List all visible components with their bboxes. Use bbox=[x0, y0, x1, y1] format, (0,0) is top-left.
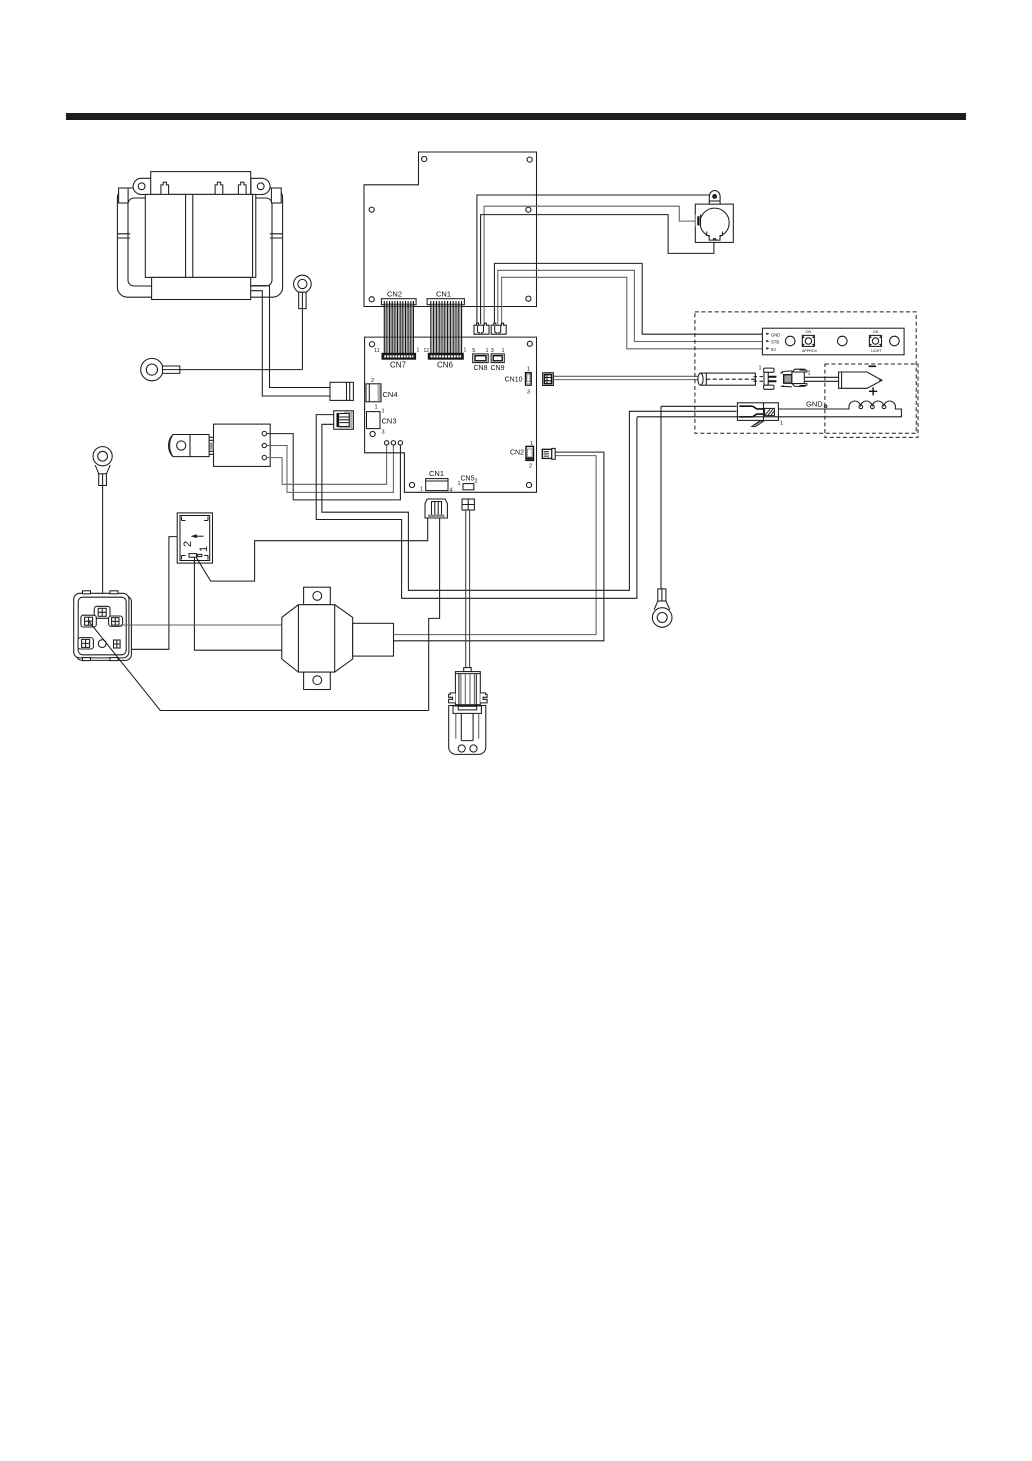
wire relay pin2 left-down bbox=[131, 537, 177, 650]
wire connector B to igniter bbox=[804, 377, 838, 381]
wire solenoid T1 to pad3 bbox=[267, 434, 401, 500]
svg-text:ON: ON bbox=[806, 330, 812, 334]
svg-text:CN4: CN4 bbox=[383, 390, 398, 399]
transformer mounting ear left bbox=[133, 178, 152, 194]
block terminal mid-left bbox=[81, 615, 96, 627]
thermostat relay RL1 bbox=[177, 513, 212, 563]
ribbon CN2-CN7 wires bbox=[386, 303, 413, 354]
plug P-CN2 bbox=[542, 448, 555, 459]
svg-text:2: 2 bbox=[529, 464, 532, 470]
panel wire GND bbox=[494, 263, 762, 334]
wire CT right to CN2 plug (top) bbox=[394, 456, 597, 635]
wire RT2 to RT1 bbox=[180, 369, 303, 371]
plug P-CN9 bbox=[491, 323, 506, 334]
mating connector B bbox=[780, 369, 807, 387]
svg-text:ON: ON bbox=[873, 330, 879, 334]
wire solenoid T3 to pad1 bbox=[267, 445, 387, 484]
transformer right arm break bbox=[270, 234, 283, 238]
connector CN4 bbox=[366, 384, 381, 402]
svg-text:CN8: CN8 bbox=[473, 365, 487, 372]
svg-text:1: 1 bbox=[485, 348, 488, 354]
panel LED 1 bbox=[785, 336, 795, 346]
svg-text:2: 2 bbox=[475, 479, 478, 485]
svg-text:5: 5 bbox=[472, 348, 475, 354]
panel button 2 bbox=[869, 330, 882, 353]
ring terminal RT1 (below transformer) bbox=[294, 275, 312, 308]
plug P-CN5 bbox=[462, 499, 474, 510]
wire block mid-right to CT bbox=[120, 624, 282, 626]
connector CN1 (board) bbox=[426, 479, 448, 491]
svg-text:1: 1 bbox=[417, 348, 420, 354]
svg-text:CN10: CN10 bbox=[505, 377, 523, 384]
plug P-CN4 bbox=[330, 382, 353, 400]
transformer core bbox=[145, 194, 256, 277]
panel wire 5V bbox=[502, 277, 763, 349]
wire RT1 down bbox=[301, 309, 303, 370]
panel wire STB bbox=[498, 270, 763, 341]
svg-text:1: 1 bbox=[198, 546, 210, 552]
ring terminal RT4 bbox=[652, 406, 672, 627]
pad C bbox=[398, 441, 402, 445]
lower PCB hole TL bbox=[369, 342, 374, 347]
wire relay pin1 to plug P-CN1 bbox=[196, 518, 427, 581]
ribbon CN1 bar bbox=[427, 299, 464, 305]
wire transformer to CN4 plug (upper) bbox=[251, 286, 330, 388]
upper PCB hole MR bbox=[526, 207, 531, 212]
pad B bbox=[391, 441, 395, 445]
transformer left arm break bbox=[117, 234, 130, 238]
svg-text:LIGHT: LIGHT bbox=[871, 349, 882, 353]
long wire W-C P-CN3 to coil loop bbox=[316, 415, 637, 599]
plug P-CN3 bbox=[334, 411, 354, 430]
transformer terminal tab 1 bbox=[161, 182, 169, 194]
lower PCB outline bbox=[365, 337, 537, 492]
block terminal bottom-right bbox=[114, 640, 121, 648]
connector CN3 bbox=[367, 412, 381, 429]
svg-text:CN6: CN6 bbox=[437, 361, 454, 370]
top rule bbox=[66, 113, 966, 120]
svg-text:CN1: CN1 bbox=[436, 290, 451, 299]
block terminal bottom-left bbox=[78, 638, 93, 649]
ribbon CN1-CN6 wires bbox=[432, 303, 460, 354]
ring terminal RT2 (left, horizontal) bbox=[141, 358, 180, 380]
svg-text:4: 4 bbox=[450, 488, 453, 494]
svg-text:2: 2 bbox=[371, 378, 374, 384]
wire CT right to CN2 plug (bottom) bbox=[394, 452, 604, 641]
block terminal mid-right bbox=[109, 616, 123, 626]
transformer inner frame bbox=[128, 198, 272, 286]
motor wire M1 bbox=[477, 195, 710, 324]
wire block diagonal to P-CN1 center bbox=[89, 622, 429, 711]
probe terminal connector A bbox=[764, 368, 777, 389]
wire P-CN10 to probe (pair) bbox=[553, 376, 698, 379]
svg-text:2: 2 bbox=[182, 541, 194, 547]
svg-text:5V: 5V bbox=[771, 347, 776, 352]
wire GND connector to RT4 bbox=[661, 405, 737, 407]
svg-text:11: 11 bbox=[374, 348, 379, 354]
upper PCB hole BR bbox=[526, 296, 531, 301]
transformer bottom plate bbox=[152, 277, 251, 299]
CT bottom tab bbox=[304, 672, 331, 689]
pad A bbox=[384, 441, 388, 445]
svg-text:1: 1 bbox=[382, 409, 385, 415]
svg-text:STB: STB bbox=[771, 340, 779, 345]
connector CN7 bar bbox=[382, 353, 416, 359]
upper PCB outline bbox=[364, 152, 537, 307]
ribbon CN2 bar bbox=[381, 299, 416, 305]
svg-text:1: 1 bbox=[808, 371, 811, 377]
connector CN8 bbox=[473, 354, 489, 363]
svg-text:3: 3 bbox=[382, 430, 385, 436]
connector CN5 bbox=[463, 484, 474, 490]
svg-text:CN7: CN7 bbox=[390, 361, 407, 370]
svg-text:GND: GND bbox=[806, 400, 823, 409]
panel LED 2 bbox=[838, 336, 848, 346]
control panel PCB bbox=[762, 328, 904, 355]
spark plug connector SP bbox=[449, 668, 488, 755]
upper PCB hole TL bbox=[422, 156, 427, 161]
svg-text:1: 1 bbox=[375, 405, 378, 411]
CT right terminal box bbox=[353, 623, 394, 656]
svg-text:3: 3 bbox=[527, 390, 530, 396]
CT right yoke bbox=[335, 605, 353, 672]
svg-text:CN9: CN9 bbox=[490, 365, 504, 372]
plug P-CN1 bbox=[425, 499, 447, 518]
svg-text:CN5: CN5 bbox=[461, 476, 475, 483]
svg-text:CN2: CN2 bbox=[387, 290, 402, 299]
temperature probe bbox=[698, 373, 756, 385]
transformer mounting ear right bbox=[251, 178, 270, 194]
svg-text:12: 12 bbox=[423, 348, 429, 354]
transformer T1 bbox=[117, 172, 282, 300]
CT top tab bbox=[304, 587, 331, 605]
wire GND connector to coil bbox=[778, 408, 849, 410]
connector CN9 bbox=[491, 354, 504, 363]
wire transformer to CN4 plug (lower) bbox=[251, 291, 330, 396]
transformer right arm cap bbox=[271, 188, 281, 203]
CT body bbox=[298, 605, 334, 672]
panel pin GND bbox=[766, 333, 769, 335]
wire P-CN5 to spark plug (pair) bbox=[466, 510, 470, 668]
panel pin 5V bbox=[766, 347, 769, 349]
block circle bbox=[98, 640, 106, 648]
svg-text:1: 1 bbox=[458, 481, 461, 487]
svg-text:1: 1 bbox=[780, 421, 783, 427]
upper PCB hole ML bbox=[369, 207, 374, 212]
motor wire M2 bbox=[484, 206, 695, 324]
transformer terminal tab 3 bbox=[238, 182, 246, 194]
transformer outer frame bbox=[117, 188, 282, 297]
svg-text:1: 1 bbox=[759, 366, 762, 372]
transformer terminal tab 2 bbox=[215, 182, 223, 194]
GND terminal connector bbox=[737, 403, 778, 427]
panel pin STB bbox=[766, 340, 769, 342]
svg-text:1: 1 bbox=[420, 487, 423, 493]
svg-text:GND: GND bbox=[771, 332, 780, 337]
lower PCB hole BR bbox=[526, 482, 531, 487]
ring terminal RT3 bbox=[93, 447, 112, 486]
wire RT3 to block bbox=[102, 486, 104, 608]
plug P-CN10 bbox=[543, 373, 554, 386]
wire P-CN1 center down bbox=[429, 518, 440, 711]
svg-text:1: 1 bbox=[527, 367, 530, 373]
motor assembly bbox=[695, 191, 733, 243]
svg-text:APPROX: APPROX bbox=[802, 349, 818, 353]
svg-text:1: 1 bbox=[501, 348, 504, 354]
dashed enclosure (igniter) bbox=[825, 364, 918, 437]
long wire W-B P-CN3 to GND connector bbox=[322, 411, 737, 590]
inductor coil bbox=[637, 401, 901, 417]
power block PB1 bbox=[74, 591, 132, 661]
upper PCB hole TR bbox=[527, 157, 532, 162]
svg-text:1: 1 bbox=[530, 441, 533, 447]
upper PCB hole BL bbox=[369, 297, 374, 302]
lower PCB hole TR bbox=[527, 341, 532, 346]
wire solenoid T2 to pad2 bbox=[267, 445, 394, 492]
lower PCB hole BL bbox=[409, 482, 414, 487]
svg-text:CN2: CN2 bbox=[510, 450, 524, 457]
svg-text:CN1: CN1 bbox=[429, 469, 444, 478]
panel LED 3 bbox=[890, 336, 900, 346]
dashed enclosure (control panel) bbox=[695, 312, 916, 433]
lower PCB hole ML bbox=[370, 431, 375, 436]
plug P-CN8 bbox=[474, 323, 489, 334]
connector CN2 (board) bbox=[526, 446, 534, 460]
igniter electrode bbox=[839, 372, 882, 388]
panel button 1 bbox=[802, 330, 818, 353]
transformer left arm cap bbox=[119, 188, 129, 203]
transformer top plate bbox=[151, 172, 251, 195]
probe lead stubs bbox=[754, 377, 764, 382]
CT left yoke bbox=[282, 605, 299, 672]
svg-text:CN3: CN3 bbox=[382, 417, 397, 426]
motor wire M3 bbox=[481, 215, 714, 324]
connector CN6 bar bbox=[428, 353, 463, 359]
solenoid valve bbox=[169, 424, 271, 466]
connector CN10 bbox=[526, 373, 532, 385]
svg-text:3: 3 bbox=[491, 348, 494, 354]
transformer core divider bbox=[186, 194, 253, 277]
block terminal top bbox=[94, 606, 110, 618]
svg-text:1: 1 bbox=[464, 348, 467, 354]
current transformer CT bbox=[282, 587, 394, 689]
wire relay pin1 down to CT bbox=[194, 557, 281, 650]
